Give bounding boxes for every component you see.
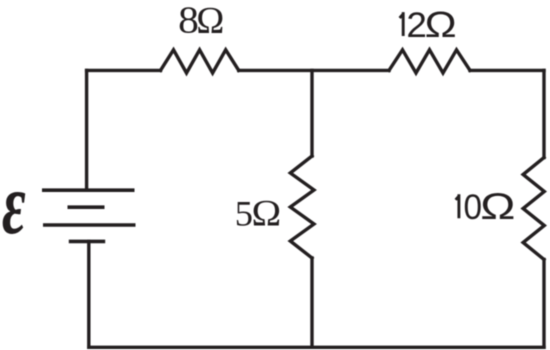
svg-text:Ω: Ω xyxy=(196,0,224,42)
wire top horizontal middle segment xyxy=(239,69,389,72)
battery EMF source xyxy=(42,190,136,241)
resistor R2 12-ohm horizontal zigzag xyxy=(389,50,470,73)
svg-text:Ω: Ω xyxy=(252,194,282,234)
wire right vertical upper xyxy=(542,70,545,157)
battery plate short upper xyxy=(68,205,105,209)
wire top horizontal left segment xyxy=(87,69,161,72)
resistor R4 10-ohm vertical zigzag xyxy=(523,158,544,260)
wire battery negative down to bottom wire xyxy=(87,241,90,347)
wire right vertical lower xyxy=(542,260,545,348)
wire left vertical (battery positive up to top-left corner) xyxy=(85,70,88,190)
label 10-ohm digit 1 xyxy=(457,196,459,217)
wire top horizontal right segment xyxy=(470,69,544,72)
svg-text:Ω: Ω xyxy=(425,5,457,45)
svg-text:Ω: Ω xyxy=(480,186,515,227)
resistor R3 5-ohm vertical zigzag xyxy=(290,156,314,258)
svg-text:ε: ε xyxy=(2,155,26,252)
label 12-ohm digit 1 xyxy=(401,14,404,35)
wire middle vertical upper (node A down to R3) xyxy=(310,70,313,156)
battery plate short bottom (negative) xyxy=(69,240,105,244)
battery plate long lower xyxy=(43,223,136,227)
svg-text:5: 5 xyxy=(235,194,253,234)
wire bottom horizontal xyxy=(89,346,544,349)
wire middle vertical lower xyxy=(310,258,313,347)
resistor R1 8-ohm horizontal zigzag xyxy=(161,50,239,73)
battery plate long top (positive) xyxy=(42,188,135,192)
